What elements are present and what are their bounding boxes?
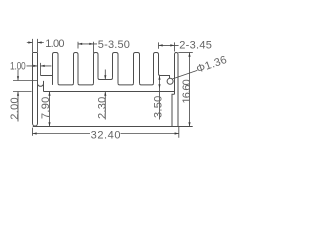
dim 1.00 left: extension line: [40, 63, 42, 76]
dim 1.00 left: leaders: [27, 65, 52, 67]
svg-text:32.40: 32.40: [91, 129, 121, 141]
arrow 2-3.45 left (points left): [159, 44, 163, 46]
svg-text:3.50: 3.50: [153, 96, 165, 118]
arrow 32.40 right (points right): [175, 132, 179, 134]
fin D: [113, 53, 119, 84]
base bottom line: [33, 126, 193, 128]
hole slot bottom: [159, 74, 170, 78]
arrow 3.50 bottom (points down): [158, 84, 160, 88]
svg-text:16.60: 16.60: [181, 79, 193, 103]
boss top (left shallow slot bottom): [41, 75, 53, 77]
screw hole circle: [167, 78, 173, 84]
groove (screw channel) left: [38, 81, 44, 92]
dim 2.30: dimension line: [104, 70, 106, 120]
leader phi 1.36: [172, 70, 197, 79]
arrow 2.30 bottom (points up): [104, 92, 106, 96]
arrow 1.00 left a (points right): [33, 65, 37, 67]
arrow 2.00 bottom (points up): [17, 92, 19, 96]
dim 32.40: dimension line: [33, 133, 179, 135]
shallow slot C-D bottom: [98, 78, 113, 80]
slot E-F bottom: [140, 83, 154, 85]
arrow 1.00 top left (points right): [28, 41, 32, 43]
dim 2.00: dimension line: [17, 70, 19, 122]
dim 32.40: extension lines: [33, 127, 179, 138]
fin A: [53, 53, 59, 85]
svg-text:2-3.45: 2-3.45: [179, 39, 212, 51]
arrow 1.00 left b (points left): [41, 65, 45, 67]
dim 2-3.45: extension lines: [159, 42, 175, 51]
arrow 5-3.50 left (points left): [78, 43, 82, 45]
fin B: [74, 53, 79, 84]
left wall fin: [33, 53, 38, 127]
arrow 5-3.50 right (points right): [89, 43, 93, 45]
dim 7.90: dimension line: [49, 92, 51, 127]
arrow 7.90 top (points up): [48, 92, 50, 96]
right wall inner step: [172, 94, 175, 126]
slot B-C bottom: [78, 83, 94, 85]
svg-text:5-3.50: 5-3.50: [98, 39, 130, 51]
arrow 2.30 top (points down): [104, 75, 106, 79]
svg-text:Φ1.36: Φ1.36: [195, 54, 228, 76]
dim 5-3.50: dimension line: [78, 43, 97, 45]
fin F: [154, 53, 159, 84]
svg-text:2.00: 2.00: [9, 98, 21, 120]
dim 2-3.45: dimension line: [159, 44, 179, 46]
slot D-E bottom: [118, 83, 134, 85]
fin E: [134, 53, 140, 84]
dim 1.00 top: extension lines: [33, 39, 38, 52]
arrow 7.90 bottom (points down): [48, 122, 50, 126]
svg-text:2.30: 2.30: [96, 97, 108, 119]
slot A-B bottom: [58, 83, 74, 85]
dim 16.60: dimension line: [189, 53, 191, 127]
dim 16.60: top extension line: [178, 52, 193, 54]
arrow 2.00 top (points down): [17, 76, 19, 80]
dim 1.00 top: leaders: [27, 42, 44, 44]
dim 5-3.50: extension lines: [78, 42, 94, 53]
arrow 16.60 top (points up): [188, 53, 190, 57]
arrow 2-3.45 right (points right): [170, 44, 174, 46]
svg-text:1.00: 1.00: [45, 38, 64, 50]
arrow 3.50 top (points up): [158, 76, 160, 80]
svg-text:1.00: 1.00: [10, 60, 26, 72]
arrow 16.60 bottom (points down): [188, 122, 190, 126]
fin C: [94, 53, 99, 84]
arrow 32.40 left (points left): [33, 132, 37, 134]
arrow 1.00 top right (points left): [38, 41, 42, 43]
svg-text:7.90: 7.90: [40, 97, 52, 119]
dim 3.50: dimension line: [159, 76, 161, 120]
channel ceiling (plate bottom line): [44, 91, 175, 93]
fin G / right wall: [175, 53, 179, 127]
dim 2.00: extension lines: [13, 81, 38, 92]
